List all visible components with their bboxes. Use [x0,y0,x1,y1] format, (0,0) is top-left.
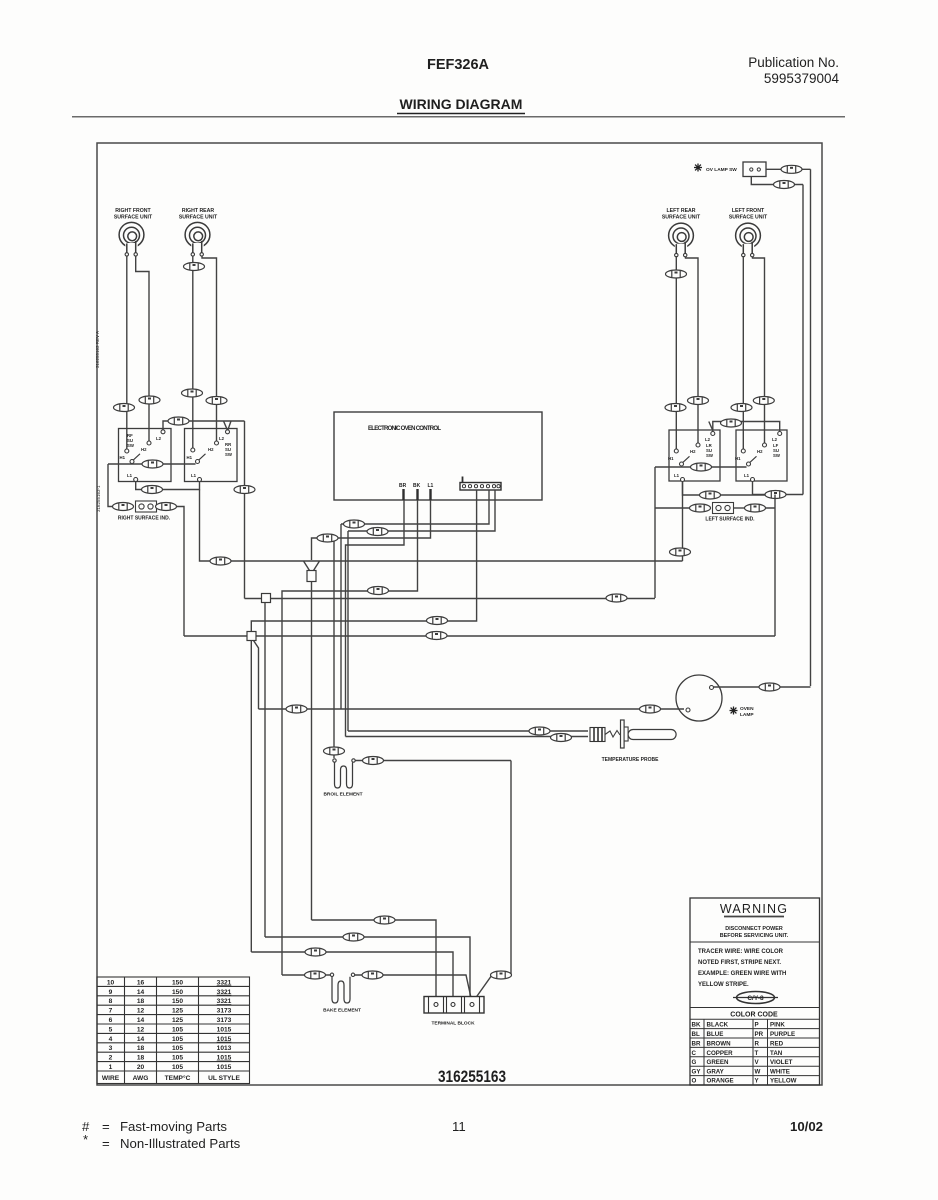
svg-text:H2: H2 [141,447,147,452]
svg-text:C/Y-8: C/Y-8 [747,995,764,1002]
warning panel divider 1 [690,941,820,943]
border frame [97,143,822,1085]
warning panel outline [690,898,820,1085]
svg-text:3173: 3173 [217,1008,232,1015]
wire right bus B down to oven lamp [810,169,812,686]
RF switch terminals H1 H2 L2 P L1 [125,430,165,482]
svg-text:OV LAMP SW: OV LAMP SW [706,167,737,173]
svg-text:RIGHT FRONT: RIGHT FRONT [115,208,151,214]
wire L1 of LF to right bus A [753,482,804,495]
connector on RR right lead [206,397,227,405]
wire junction y636 slant to lamp drop [254,641,259,710]
wire LF unit left lead down to H1 of LF switch [742,256,744,449]
svg-text:6: 6 [109,1017,113,1024]
svg-text:BROIL ELEMENT: BROIL ELEMENT [323,792,362,798]
wire y952 run to terminal 2 [251,952,453,1000]
svg-text:TEMPERATURE PROBE: TEMPERATURE PROBE [602,757,660,763]
svg-text:5: 5 [109,1026,113,1033]
svg-text:316255163: 316255163 [438,1067,506,1086]
wire RF unit right lead jog and down to H2 of RF switch [136,256,149,441]
wire L1 link RF to RR [136,482,200,490]
LR switch terminals H1 H2 L2 P L1 [674,432,715,482]
connector on LF L1 wire [765,491,786,499]
connector on y952 run [305,948,326,956]
svg-text:L2: L2 [219,436,225,441]
wire drop into LR L2 terminal V [709,422,713,431]
wire bake left feed y975 [282,974,330,976]
connector on y937 run [343,933,364,941]
svg-text:RIGHT SURFACE IND.: RIGHT SURFACE IND. [118,516,171,522]
svg-text:BLUE: BLUE [707,1031,724,1038]
svg-text:16: 16 [137,979,145,986]
wire right bus A down to LF L1 level [802,185,804,495]
svg-text:P: P [755,1022,759,1029]
svg-text:5995379004: 5995379004 [764,71,840,86]
svg-text:105: 105 [172,1026,183,1033]
svg-text:H1: H1 [735,456,741,461]
svg-text:316255163-1: 316255163-1 [96,485,101,512]
RF switch wiper arm [134,454,141,460]
svg-text:GREEN: GREEN [707,1059,730,1066]
svg-text:BL: BL [692,1031,700,1038]
right front surface unit coil [119,222,144,256]
left surface indicator connector right [745,504,766,512]
svg-text:Non-Illustrated Parts: Non-Illustrated Parts [120,1136,241,1151]
svg-text:OVEN: OVEN [740,706,754,712]
connector on oven lamp right lead [759,683,780,691]
svg-text:105: 105 [172,1045,183,1052]
connector on probe line 2 [551,734,572,742]
color code table grid [690,1019,820,1085]
svg-text:3173: 3173 [217,1017,232,1024]
RF terminal labels [120,436,162,478]
svg-text:RED: RED [770,1040,784,1047]
EOC terminal stub BK [416,489,418,500]
svg-text:UL STYLE: UL STYLE [208,1075,240,1082]
wire neutral bus y561 [200,490,683,562]
connector on y531 run [367,528,388,536]
svg-text:H2: H2 [757,449,763,454]
svg-text:H2: H2 [208,447,214,452]
svg-text:20: 20 [137,1064,145,1071]
svg-text:W: W [755,1069,761,1076]
connector on LR L1 neutral drop [670,548,691,556]
wire bake right lead to terminal 3 [355,975,472,1000]
svg-text:AWG: AWG [133,1075,149,1082]
svg-text:3321: 3321 [217,979,232,986]
svg-text:=: = [102,1119,110,1134]
svg-text:1015: 1015 [217,1026,232,1033]
EOC terminal stub BR [402,489,404,500]
svg-text:SW: SW [127,443,135,448]
label right rear surface unit [179,208,218,221]
wire EOC BK to bake feed (y590 run) [282,500,418,975]
wire EOC L1 to neutral splice (y538 run) [312,500,431,560]
svg-text:105: 105 [172,1064,183,1071]
connector on L2 riser [234,486,255,494]
svg-text:150: 150 [172,989,183,996]
connector on LR-LF L2 bus [721,419,742,427]
wire right loop down to terminal block [474,761,512,1002]
wire EOC BR to probe line 2 (y545 run) [346,500,405,737]
svg-text:ELECTRONIC OVEN CONTROL: ELECTRONIC OVEN CONTROL [368,426,441,432]
svg-text:BK: BK [413,483,421,489]
connector on LF left lead [731,404,752,412]
connector on LR left lead [665,404,686,412]
wire left indicator right stub to riser [766,495,776,637]
svg-text:12: 12 [137,1008,145,1015]
svg-text:=: = [102,1136,110,1151]
wire splice V right [314,561,320,571]
svg-text:14: 14 [137,1036,145,1043]
connector on y538 run [317,534,338,542]
wire junction y598 drop down to y937 run [264,603,266,938]
svg-text:14: 14 [137,1017,145,1024]
wire L2 bus between LR and LF switches [713,422,780,432]
svg-text:BAKE ELEMENT: BAKE ELEMENT [323,1008,361,1014]
LF surface switch box [736,430,787,481]
wire lamp switch lower lead to right bus [751,177,803,185]
svg-text:L1: L1 [674,473,680,478]
svg-text:V: V [755,1059,760,1066]
electronic oven control box [334,412,542,500]
wire y524 drop to lamp run [340,524,342,709]
wire broil right lead across to right loop [355,760,511,762]
svg-text:TAN: TAN [770,1050,783,1057]
svg-text:PINK: PINK [770,1022,785,1029]
bake element right terminal [351,973,354,976]
connector on bake left feed [305,971,326,979]
oven lamp terminal left [686,708,690,712]
label left front surface unit [729,208,768,221]
svg-text:BEFORE SERVICING UNIT.: BEFORE SERVICING UNIT. [720,933,789,939]
warning text [720,926,789,939]
wire EOC plug pin to probe feed (y531 run) [348,490,495,531]
RR surface switch box [185,429,238,482]
svg-text:BR: BR [399,483,407,489]
asterisk oven lamp [730,707,738,715]
right rear surface unit coil [185,222,210,256]
svg-text:LEFT SURFACE IND.: LEFT SURFACE IND. [705,517,755,523]
left surface indicator connector left [690,504,711,512]
wire y598 run to P bus riser [245,598,656,600]
svg-text:NOTED FIRST, STRIPE NEXT.: NOTED FIRST, STRIPE NEXT. [698,960,781,966]
svg-text:150: 150 [172,998,183,1005]
EOC terminal stub L1 [429,489,431,500]
connector on y524 run [344,520,365,528]
wire probe line 2 y736.5 [346,736,589,738]
wire indicator bus y636 [184,635,775,637]
connector on LR-LF P bus [691,463,712,471]
RR switch wiper arm [199,454,206,460]
svg-text:L1: L1 [127,473,133,478]
svg-text:Publication No.: Publication No. [748,55,839,70]
LF switch designator [773,443,781,458]
svg-text:3321: 3321 [217,989,232,996]
svg-text:WHITE: WHITE [770,1069,790,1076]
svg-text:BLACK: BLACK [707,1022,729,1029]
svg-text:14: 14 [137,989,145,996]
connector on y636 run [426,632,447,640]
connector on bake right lead [362,971,383,979]
connector on broil right lead [363,757,384,765]
wire probe line 1 y731 [348,730,588,732]
LR switch designator [706,443,714,458]
svg-text:125: 125 [172,1017,183,1024]
tracer wire note [698,949,786,988]
svg-text:4: 4 [109,1036,113,1043]
label right front surface unit [114,208,153,221]
svg-text:LEFT FRONT: LEFT FRONT [732,208,765,214]
svg-text:O: O [692,1078,697,1085]
LR switch wiper arm [683,456,690,462]
svg-text:9: 9 [109,989,113,996]
wire neutral run y920 to terminal 1 [312,920,437,1000]
right surface indicator connector left [113,503,134,511]
wire y937 run to terminal 3 [265,937,472,1000]
svg-text:YELLOW STRIPE.: YELLOW STRIPE. [698,982,749,988]
connector on lamp switch output [781,165,802,173]
svg-text:EXAMPLE: GREEN WIRE WITH: EXAMPLE: GREEN WIRE WITH [698,971,786,977]
svg-text:ORANGE: ORANGE [707,1078,734,1085]
left surface indicator link stub [734,507,745,509]
svg-text:8: 8 [109,998,113,1005]
horizontal rule under heading [72,116,845,118]
terminal block body [424,997,484,1014]
connector on lamp switch lower lead [774,181,795,189]
svg-text:C: C [692,1050,697,1057]
broil element right terminal [352,759,355,762]
svg-text:L1: L1 [744,473,750,478]
connector on L2 bus left [168,417,189,425]
svg-text:1013: 1013 [217,1045,232,1052]
svg-text:3: 3 [109,1045,113,1052]
svg-text:11: 11 [452,1119,466,1134]
wire splice V left [304,561,310,571]
svg-text:TERMINAL BLOCK: TERMINAL BLOCK [431,1021,475,1027]
right surface indicator lamp body [136,501,157,512]
connector on LR right lead [688,397,709,405]
wire EOC plug pin to oven lamp feed (down, left run y621) [251,490,476,631]
wire L2 riser right of RR switch down to splice level [244,421,246,599]
wire LR unit right lead jog and down to H2 of LR switch [686,257,699,444]
wire gauge table grid [97,977,250,1084]
connector on RF right lead [139,396,160,404]
color code rows [692,1022,797,1085]
broil element coil [335,763,353,789]
svg-text:COPPER: COPPER [707,1050,734,1057]
svg-text:H1: H1 [120,455,126,460]
svg-text:L1: L1 [191,473,197,478]
svg-text:WIRE: WIRE [102,1075,120,1082]
wire neutral drop to terminal block run [311,582,313,921]
warning title underline [724,916,784,918]
wire P bus left drop to right surface indicator [108,464,113,507]
wire RR unit left lead down to H1 of RR switch [192,256,194,448]
svg-text:WARNING: WARNING [720,902,788,916]
bake element coil [332,977,350,1003]
svg-text:YELLOW: YELLOW [770,1078,797,1085]
svg-text:SW: SW [706,453,714,458]
svg-text:PURPLE: PURPLE [770,1031,795,1038]
svg-text:125: 125 [172,1008,183,1015]
svg-text:H2: H2 [690,449,696,454]
svg-text:1015: 1015 [217,1036,232,1043]
svg-text:SW: SW [773,453,781,458]
junction box on y636 run [247,632,256,641]
connector on lamp left run A [286,705,307,713]
probe plug (striped connector) [590,728,605,742]
svg-text:18: 18 [137,998,145,1005]
oven lamp bulb [676,675,722,721]
wire RR unit right lead jog and down to H2 of RR switch [202,257,217,442]
svg-text:1: 1 [109,1064,113,1071]
wire LR unit left lead down to H1 of LR switch [675,256,677,449]
wire oven lamp right lead to right bus B [714,686,811,688]
LR surface switch box [669,430,720,481]
right surface indicator connector right [156,503,177,511]
heading underline [397,113,525,115]
wire gauge table data [102,979,241,1081]
connector on probe line 1 [529,727,550,735]
RR switch terminals H1 H2 L2 P L1 [191,430,230,482]
connector on RF-RR P bus [142,460,163,468]
bake element left terminal [330,973,333,976]
svg-text:18: 18 [137,1045,145,1052]
svg-text:Fast-moving Parts: Fast-moving Parts [120,1119,227,1134]
svg-text:1015: 1015 [217,1055,232,1062]
svg-text:150: 150 [172,979,183,986]
svg-text:TRACER WIRE: WIRE COLOR: TRACER WIRE: WIRE COLOR [698,949,784,955]
probe collar [624,727,628,741]
svg-text:R: R [755,1040,760,1047]
left front surface unit coil [736,223,761,257]
EOC strip pin 1 marker [462,477,464,483]
terminal block terminal 1 [434,1003,438,1007]
terminal block terminal 3 [470,1003,474,1007]
svg-text:H1: H1 [187,455,193,460]
svg-text:SW: SW [225,452,233,457]
svg-text:105: 105 [172,1036,183,1043]
connector on RR left lead [182,389,203,397]
svg-text:2: 2 [109,1055,113,1062]
wire y531 drop to probe line 1 [347,531,349,731]
wire RF unit left lead down to H1 of RF switch [126,256,128,449]
example tracer connector G/Y-8 [733,992,778,1004]
broil element left terminal [333,759,336,762]
svg-text:BK: BK [692,1022,701,1029]
label oven lamp [740,706,754,718]
left surface indicator lamp body [713,503,734,514]
label left rear surface unit [662,208,701,221]
LR terminal labels [668,437,711,478]
connector on RR unit left lead [184,263,205,271]
RF switch designator [127,433,135,448]
svg-text:12: 12 [137,1026,145,1033]
svg-text:105: 105 [172,1055,183,1062]
wire junction y636 drop to terminal 2 run [250,641,252,953]
LF switch wiper arm [750,456,757,462]
neutral splice box [307,571,316,582]
terminal block terminal 2 [451,1003,455,1007]
wire P bus between RF and RR switches [108,463,196,465]
left rear surface unit coil [669,223,694,257]
svg-text:18: 18 [137,1055,145,1062]
svg-text:SURFACE UNIT: SURFACE UNIT [662,215,701,221]
svg-text:FEF326A: FEF326A [427,57,490,73]
connector on right loop bottom [491,971,512,979]
wire drop into RR L2 terminal [224,421,232,430]
wire P bus between LR and LF switches [655,466,747,468]
svg-text:*: * [83,1132,88,1147]
wire broil element feed from neutral run [333,539,335,759]
svg-text:BR: BR [692,1040,701,1047]
connector on y621 run [427,617,448,625]
wire lamp switch output to right bus [766,168,811,170]
connector on LR L1 link [700,491,721,499]
probe twisted lead [605,731,620,738]
svg-text:VIOLET: VIOLET [770,1059,793,1066]
svg-text:BROWN: BROWN [707,1040,732,1047]
RF surface switch box [119,429,172,482]
svg-text:10: 10 [107,979,115,986]
wire L2 bus between RF and RR switches [163,421,245,430]
oven lamp switch terminal 2 [757,168,760,171]
connector on neutral bus left [210,557,231,565]
oven lamp terminal right [710,686,714,690]
svg-text:L1: L1 [428,483,434,489]
connector on lamp left run B [640,705,661,713]
svg-text:SURFACE UNIT: SURFACE UNIT [179,215,218,221]
connector on RF left lead [114,404,135,412]
svg-text:7: 7 [109,1008,113,1015]
svg-text:RIGHT REAR: RIGHT REAR [182,208,215,214]
wire left indicator left stub [655,507,690,509]
svg-text:L2: L2 [772,437,778,442]
wire EOC plug pin to oven lamp tee (y524 run) [341,490,489,524]
svg-text:G: G [692,1059,697,1066]
connector on RF-RR L1 link [142,486,163,494]
svg-text:1015: 1015 [217,1064,232,1071]
svg-text:T: T [755,1050,759,1057]
oven lamp switch box [743,162,766,177]
connector on y920 run [374,916,395,924]
color code header divider [690,1007,820,1009]
wire right indicator to right riser [177,507,185,637]
svg-text:SURFACE UNIT: SURFACE UNIT [729,215,768,221]
connector on y590 run [368,587,389,595]
EOC connector strip [460,483,501,491]
junction box on y598 run [262,594,271,603]
svg-text:LAMP: LAMP [740,712,754,718]
svg-text:COLOR CODE: COLOR CODE [730,1012,778,1019]
svg-text:Y: Y [755,1078,760,1085]
svg-text:TEMP°C: TEMP°C [165,1074,191,1082]
oven lamp switch terminal 1 [750,168,753,171]
svg-text:PR: PR [755,1031,764,1038]
LF terminal labels [735,437,778,478]
svg-text:GRAY: GRAY [707,1069,725,1076]
wire L1 of LR link to right [683,482,776,496]
svg-text:GY: GY [692,1069,702,1076]
connector on broil left drop [324,747,345,755]
connector on LF right lead [753,397,774,405]
probe mounting flange [621,720,625,748]
LF switch terminals H1 H2 L2 P L1 [741,432,781,482]
svg-text:L2: L2 [156,436,162,441]
wire P bus left riser down to y598 run [654,467,656,598]
svg-text:10/02: 10/02 [790,1119,823,1134]
